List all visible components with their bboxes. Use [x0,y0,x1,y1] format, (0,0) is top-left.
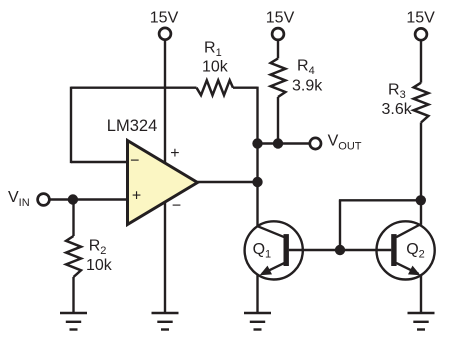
svg-text:+: + [132,188,141,205]
svg-text:VOUT: VOUT [328,133,362,153]
node junction dot (op-amp output) [252,177,262,187]
wire non-inverting input (y=199.5) [49,198,127,200]
transistor Q2 circle [377,221,435,279]
wire base node to collector node (y=200.3) [339,199,421,201]
resistor R4 zigzag [271,58,286,97]
resistor R2 zigzag [66,236,81,277]
label R1 [204,39,222,59]
ground (under op-amp V−) [152,313,179,330]
value 3.9k (R4) [292,78,323,95]
transistor Q1 emitter arrowhead [260,266,272,276]
svg-text:15V: 15V [406,10,435,27]
svg-text:−: − [130,152,139,169]
wire R2 top [72,200,74,237]
wire feedback left vertical (x=71) [70,87,72,164]
transistor Q2 emitter line [396,263,418,274]
label VIN [8,189,30,209]
node junction dot (R3 / Q2 collector) [416,195,426,205]
transistor Q1 collector line [258,226,285,237]
wire Vout horizontal (y=143.5) [258,142,310,144]
label 15V (middle) [266,10,295,27]
resistor R3 zigzag [414,83,429,123]
transistor Q2 collector line [396,224,421,237]
svg-text:15V: 15V [266,10,295,27]
node junction dot (VIN / R2) [68,194,78,204]
op-amp inverting input label − [130,152,139,169]
value 3.6k (R3) [382,101,413,118]
svg-text:10k: 10k [202,58,229,75]
wire Q1 emitter to ground [256,274,258,313]
ground (under Q1 emitter) [244,313,271,330]
svg-text:10k: 10k [86,257,113,274]
op-amp V+ pin label + [170,145,179,162]
wire 15V supply rail through op-amp (vertical, x=165) [164,41,166,314]
label 15V (right) [406,10,435,27]
svg-text:R4: R4 [297,58,315,78]
label LM324 [107,117,157,135]
wire R1 right to node (y=87.7) [233,86,258,88]
wire node vertical x=257.5 from y=87.7 to Vout node [256,87,258,144]
svg-text:3.6k: 3.6k [382,101,413,118]
svg-text:R1: R1 [204,39,222,59]
value 10k (R1) [202,58,229,75]
node junction dot (Q1/Q2 base tie) [335,245,345,255]
label R2 [89,238,107,258]
svg-text:Q2: Q2 [406,241,425,260]
wire feedback top horizontal (y=87.7) [71,86,197,88]
svg-text:−: − [172,197,181,214]
supply terminal 15V (left, op-amp supply) [159,28,171,40]
ground (under Q2 emitter) [408,313,435,330]
op-amp U1 LM324 body [128,141,198,225]
terminal VIN [38,194,50,206]
ground (under R2) [60,313,87,330]
transistor Q1 circle [245,221,303,279]
wire inverting input (y=162) [71,161,128,163]
transistor Q1 emitter line [262,263,284,274]
node junction dot (R4 bottom) [273,138,283,148]
wire op-amp output (y=182) [198,181,258,183]
wire R2 bottom to ground [72,277,74,313]
wire R4 bottom to Vout node [277,97,279,144]
svg-text:R2: R2 [89,238,107,258]
transistor Q1 base bar [284,234,289,266]
wire Q2 base (y=250) [340,249,391,251]
svg-text:+: + [170,145,179,162]
svg-text:3.9k: 3.9k [292,78,323,95]
wire Q2 emitter to ground [420,276,422,313]
label Q2 [406,241,425,260]
svg-text:15V: 15V [150,10,179,27]
resistor R1 zigzag [197,80,234,95]
wire base node riser (x=340) [339,200,341,251]
wire output node down to Q1 collector [256,182,258,226]
label R4 [297,58,315,78]
wire Q2 collector up to node [420,200,422,225]
node junction dot (R1 path / Vout wire) [252,138,262,148]
label 15V (left) [150,10,179,27]
svg-text:VIN: VIN [8,189,30,209]
op-amp V− pin label − [172,197,181,214]
wire R4 top (from 15V terminal) [277,40,279,59]
label VOUT [328,133,362,153]
terminal VOUT [310,138,321,149]
label R3 [388,82,406,102]
wire node vertical x=257.5 from Vout node to output node [256,144,258,183]
wire Q1 base to node (y=250) [289,249,340,251]
transistor Q2 emitter arrowhead [408,266,420,276]
svg-text:Q1: Q1 [253,241,272,260]
supply terminal 15V (middle, R4) [272,28,284,40]
supply terminal 15V (right, R3) [415,28,427,40]
transistor Q2 base bar [391,234,396,266]
svg-text:LM324: LM324 [107,117,157,135]
svg-text:R3: R3 [388,82,406,102]
value 10k (R2) [86,257,113,274]
wire R3 top (from 15V terminal) [420,40,422,82]
wire R3 bottom to collector node [420,123,422,201]
label Q1 [253,241,272,260]
op-amp non-inverting input label + [132,188,141,205]
